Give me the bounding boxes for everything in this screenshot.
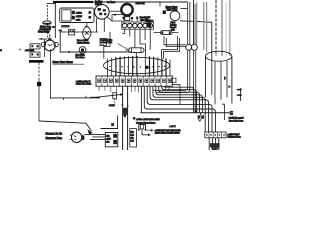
big box cab outline <box>55 3 132 52</box>
terminal strip TS1 <box>96 76 172 86</box>
svg-text:Xxxxx Xxxxx: Xxxxx Xxxxx <box>77 43 90 45</box>
wire ignition drop elbow <box>104 32 110 59</box>
wire long horizontal to center <box>51 94 122 98</box>
long bottom wire <box>141 112 230 114</box>
grommet G1 <box>79 47 86 54</box>
connector square on corner <box>163 11 166 15</box>
wire ignition to horn <box>110 10 121 12</box>
svg-text:xXx: xXx <box>131 138 134 140</box>
connector plug P1 <box>37 82 41 86</box>
svg-text:XxXX XX XXxX: XxXX XX XXxX <box>76 83 92 85</box>
wire corner above relay <box>101 116 118 129</box>
svg-text:Horn Relay: Horn Relay <box>38 31 50 34</box>
loom pins <box>109 66 165 69</box>
strip stubs below <box>99 86 169 93</box>
svg-text:xxXx: xxXx <box>76 20 80 22</box>
horn H1 <box>41 34 58 51</box>
label below buzzer <box>170 22 177 31</box>
label horn lead <box>136 3 146 5</box>
wire bottom left run <box>39 121 92 131</box>
horn button (dark ring) <box>121 4 132 21</box>
connector on corner wire <box>111 123 114 126</box>
svg-text:xXxXx: xXxXx <box>76 12 82 14</box>
label horn relay <box>38 31 50 34</box>
wire overlap dark segment <box>90 97 100 99</box>
riser dark <box>215 0 217 56</box>
svg-text:XxXxxxx Xxxx: XxXxxxx Xxxx <box>228 137 242 139</box>
svg-text:x.x: x.x <box>59 30 62 32</box>
svg-text:Xxxx Xxx Xxxx: Xxxx Xxx Xxxx <box>53 60 74 64</box>
svg-text:Xxxx XxXx Xxxx: Xxxx XxXx Xxxx <box>229 120 243 122</box>
fuse block F-A <box>60 8 94 23</box>
svg-text:xXx: xXx <box>131 132 134 134</box>
wire strip out right <box>172 85 180 105</box>
relay box RB2 <box>130 129 137 148</box>
arrow blob <box>88 129 93 134</box>
wire dashed below condenser <box>46 26 48 40</box>
connector CN2 <box>113 93 117 105</box>
leader line <box>118 44 129 50</box>
nest wire 6 <box>150 86 209 132</box>
wire left drop solid <box>38 80 40 121</box>
svg-text:xXXxX: xXXxX <box>76 16 83 18</box>
svg-text:XxxX XxXxx XxxXX xxXXx: XxxX XxXxx XxxXX xxXXx <box>155 133 181 135</box>
noise condenser C1 <box>43 21 51 25</box>
svg-text:x XxxX XxX: x XxxX XxX <box>101 42 113 44</box>
label right note <box>229 117 244 122</box>
gray risers right <box>204 2 207 52</box>
wire inner panel line <box>60 31 98 33</box>
svg-text:to Horn: to Horn <box>107 1 116 4</box>
tick on wire <box>64 96 87 100</box>
junction dot at pair <box>120 93 122 95</box>
left edge tick <box>0 49 2 51</box>
speck <box>19 49 21 50</box>
label left of buzzer <box>146 20 154 27</box>
wire elbows into loom <box>162 36 180 59</box>
harness cylinder <box>206 51 232 103</box>
fuse holder FH1 <box>198 113 204 122</box>
ground blob <box>210 143 220 150</box>
bus bar (thick top line) <box>53 1 93 3</box>
nest wire 1 <box>165 86 194 113</box>
connector on panel line <box>69 29 75 35</box>
fuse leads bottom <box>122 29 150 56</box>
cable pair B <box>194 0 197 44</box>
wire triple bundle <box>84 134 105 139</box>
svg-text:x xX X: x xX X <box>170 126 177 128</box>
label wire note A <box>133 117 176 128</box>
wire top line <box>93 1 188 3</box>
connector strip TS2 <box>205 132 226 138</box>
wire right corner drop <box>159 2 161 7</box>
svg-text:xXxX: xXxX <box>106 138 111 140</box>
lighter symbol <box>140 124 150 136</box>
wire stub to cable <box>181 8 188 10</box>
riser gray thick <box>221 0 223 56</box>
wire vertical left <box>43 39 45 57</box>
wires below TS2 <box>209 138 219 150</box>
nest wire 5 <box>153 86 205 132</box>
junction tick <box>195 110 197 113</box>
fuse row block <box>122 22 154 29</box>
connector on wire end <box>230 111 233 115</box>
cable pair below connector <box>154 50 196 112</box>
svg-text:xxXX XxX XxxX xXxXx XXx: xxXX XxX XxxX xXxXx XXx <box>155 130 181 132</box>
label g mark <box>224 77 226 80</box>
wire horn lead down <box>50 49 52 99</box>
wire corner right <box>222 104 224 120</box>
junction dot bottom line <box>68 51 70 53</box>
svg-text:xXxXx: xXxXx <box>109 105 115 107</box>
svg-text:Xxxxxxx Xx Xx: Xxxxxxx Xx Xx <box>46 133 63 136</box>
strip pins <box>98 79 171 82</box>
svg-text:xXx: xXx <box>106 141 109 143</box>
nest wire 4 <box>156 86 203 113</box>
label noise condenser <box>40 26 52 31</box>
cable pair A <box>188 2 190 44</box>
label motor <box>46 133 63 140</box>
label fuse row <box>140 17 151 21</box>
label strip TS2 <box>228 134 242 139</box>
label relay <box>25 50 35 52</box>
nest wire 8 <box>144 86 215 132</box>
antenna lead pair <box>123 86 128 150</box>
label ignition <box>95 1 103 7</box>
lamp L1 <box>83 23 91 41</box>
loom ellipse <box>104 57 170 73</box>
antenna plug <box>122 104 129 118</box>
motor M1 <box>70 132 85 142</box>
svg-text:Xxx Xxxx: Xxx Xxxx <box>76 57 86 59</box>
nest wire 7 <box>147 86 212 132</box>
relay box RB1 <box>105 133 118 147</box>
wire below fuse <box>135 52 137 57</box>
label ledc <box>53 26 70 32</box>
svg-text:x xXXx XxxX: x xXXx XxxX <box>228 134 241 136</box>
svg-text:x XXx x XxXx XxX xxXxX: x XXx x XxXx XxX xxXxX <box>136 119 160 121</box>
label panel text <box>77 40 90 45</box>
label wire note B <box>155 130 181 135</box>
svg-text:xx: xx <box>53 27 55 29</box>
backup buzzer label <box>166 7 179 12</box>
label CN2 <box>109 105 115 107</box>
wire top feed <box>47 3 57 5</box>
inline fuse FL2 <box>154 31 179 35</box>
label horn <box>107 1 116 4</box>
svg-text:xxXXxX: xxXXxX <box>146 20 154 22</box>
wire elbows to connector <box>164 36 186 47</box>
svg-text:XxxXXxX x xxxX: XxxXXxX x xxxX <box>229 117 244 119</box>
nest wire 3 <box>159 86 200 113</box>
inline fuse FL1 <box>126 48 145 53</box>
svg-text:xXx: xXx <box>106 135 109 137</box>
relay box K1a <box>30 44 40 49</box>
cylinder wires <box>212 61 227 104</box>
wire dashed left drop <box>38 63 40 80</box>
junction dot <box>114 14 116 16</box>
svg-text:Condenser: Condenser <box>40 28 51 31</box>
label circuit note <box>101 39 113 44</box>
wire drop from horn feed <box>97 18 105 32</box>
strip end connector <box>172 78 177 82</box>
riser gray2 <box>229 0 231 56</box>
nest wire 2 <box>162 86 197 113</box>
terminal bar <box>29 60 44 63</box>
fuse block F-B <box>72 11 91 22</box>
wire junction <box>39 38 48 40</box>
cable connector CN1 <box>186 44 198 50</box>
wire buzzer feed right <box>180 21 212 61</box>
bracket connector <box>228 86 242 101</box>
ignition switch S1 <box>95 2 110 19</box>
label fuse panel note <box>76 81 92 86</box>
label grommet <box>76 54 86 59</box>
svg-text:Xxxxxxxx Xxxx: Xxxxxxxx Xxxx <box>46 137 63 140</box>
pi connector <box>138 125 153 132</box>
wire dashed drop to condenser <box>47 5 49 21</box>
label underlined title <box>53 60 85 64</box>
nest wire 9 <box>140 86 142 113</box>
svg-text:X.X.X.X: X.X.X.X <box>62 26 70 28</box>
loom wires vertical <box>108 56 171 76</box>
relay box K1b <box>30 52 40 57</box>
wire diagonal to corner <box>107 15 123 22</box>
fuse leads top <box>123 17 146 23</box>
riser light <box>225 2 227 56</box>
small box right of panel <box>100 39 107 46</box>
backup buzzer B1 <box>170 11 180 21</box>
svg-text:Xxxx Xxx: Xxxx Xxx <box>136 3 146 5</box>
